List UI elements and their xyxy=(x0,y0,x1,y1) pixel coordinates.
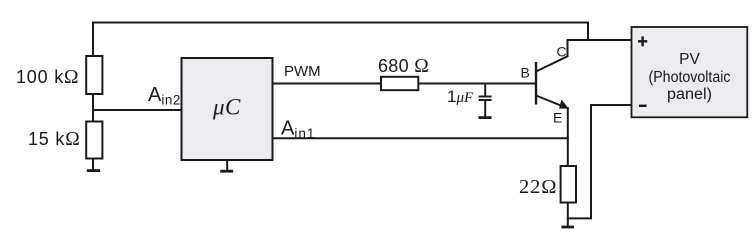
op-amp style block: microcontroller U1 body xyxy=(182,58,273,160)
wire Ain1 from uC to emitter node xyxy=(273,137,569,139)
svg-text:100 kΩ: 100 kΩ xyxy=(16,67,79,88)
PV plus terminal xyxy=(638,36,647,46)
capacitor C1 xyxy=(479,84,492,117)
wire left vertical into R1 xyxy=(92,22,94,57)
ground below R4 xyxy=(562,226,575,229)
svg-text:22Ω: 22Ω xyxy=(519,176,557,198)
resistor R3 680 body xyxy=(381,77,418,90)
wire collector up and to PV plus xyxy=(567,40,632,57)
wire bottom node to PV minus xyxy=(567,105,632,219)
transistor Q1 collector stroke xyxy=(536,56,568,71)
svg-text:B: B xyxy=(521,64,530,80)
svg-text:E: E xyxy=(553,110,562,126)
wire Ain2 to uC xyxy=(93,109,182,111)
svg-text:1μF: 1μF xyxy=(447,87,474,106)
svg-text:μC: μC xyxy=(212,95,241,120)
PV minus terminal xyxy=(639,105,647,107)
svg-text:(Photovoltaic: (Photovoltaic xyxy=(649,69,731,86)
svg-text:C: C xyxy=(557,43,567,59)
wire R4 bottom to ground xyxy=(567,203,569,227)
transistor Q1 base bar xyxy=(535,62,537,105)
svg-text:15 kΩ: 15 kΩ xyxy=(28,129,81,150)
ground below C1 xyxy=(478,116,491,119)
resistor R2 15k body xyxy=(86,122,102,159)
wire divider mid node xyxy=(92,94,94,122)
block PV panel body xyxy=(632,27,748,117)
ground below uC xyxy=(220,160,233,171)
resistor R4 22 body xyxy=(561,166,576,203)
wire PWM from uC to base xyxy=(273,83,537,85)
wire emitter down to R4 xyxy=(567,107,569,166)
svg-text:PWM: PWM xyxy=(284,63,321,80)
transistor Q1 emitter stroke with arrow xyxy=(536,96,569,109)
svg-text:680 Ω: 680 Ω xyxy=(378,56,429,77)
svg-text:PV: PV xyxy=(679,51,700,68)
resistor R1 100k body xyxy=(86,56,102,94)
svg-text:panel): panel) xyxy=(667,86,712,103)
wire top rail from divider to PV plus drop xyxy=(93,22,588,41)
ground below R2 xyxy=(87,159,100,171)
